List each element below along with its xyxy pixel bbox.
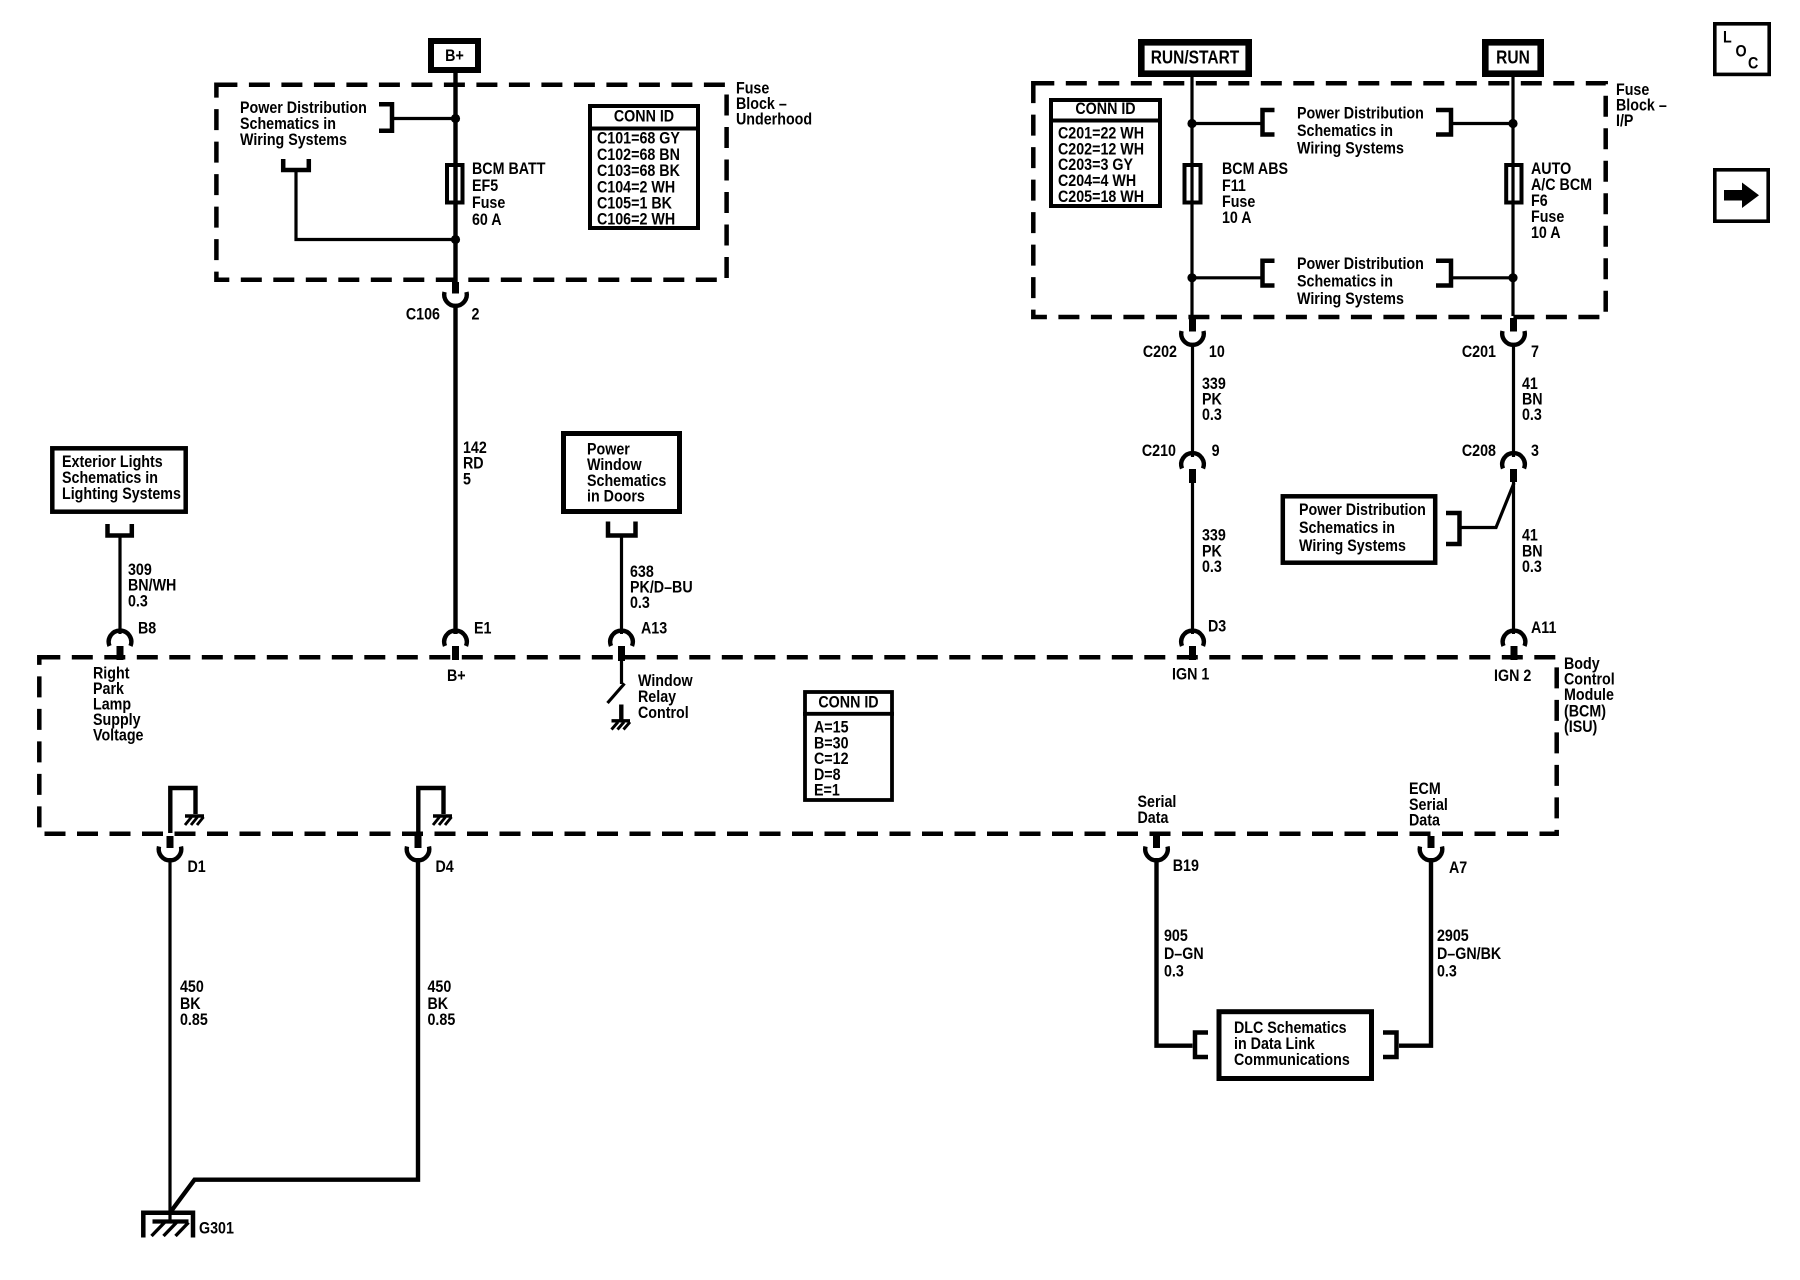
- junction dot: [451, 114, 460, 123]
- wire RUN/START to upper-left bracket: [1192, 122, 1261, 125]
- svg-text:CONN ID: CONN ID: [1075, 100, 1135, 118]
- junction dot: [1187, 119, 1196, 128]
- wire upper-right bracket to RUN wire: [1453, 122, 1513, 125]
- svg-text:E=1: E=1: [814, 782, 840, 800]
- svg-text:Voltage: Voltage: [93, 726, 144, 744]
- connector A7: [1420, 836, 1468, 877]
- chassis ground (right hook): [433, 816, 452, 825]
- connector B8 at BCM: [109, 619, 157, 660]
- DLC right bracket: [1383, 1033, 1397, 1058]
- svg-text:0.85: 0.85: [180, 1011, 208, 1029]
- label Fuse Block - I/P: [1616, 81, 1667, 130]
- svg-text:905: 905: [1164, 927, 1188, 945]
- svg-text:in Doors: in Doors: [587, 488, 645, 506]
- label 142 RD 5: [463, 439, 487, 489]
- CONN ID table (BCM): [803, 692, 894, 800]
- svg-text:7: 7: [1531, 343, 1539, 361]
- connector B19: [1145, 836, 1199, 875]
- svg-text:C208: C208: [1462, 442, 1496, 460]
- box Exterior Lights Schematics in Lighting Systems: [52, 448, 185, 511]
- svg-text:2905: 2905: [1437, 927, 1469, 945]
- fuse EF5: [447, 165, 463, 203]
- svg-text:Data: Data: [1409, 811, 1440, 829]
- svg-text:Power Distribution: Power Distribution: [1297, 255, 1424, 273]
- svg-text:2: 2: [472, 305, 480, 323]
- svg-text:A13: A13: [641, 619, 667, 637]
- off-page bracket to power distribution (upper): [379, 104, 392, 131]
- svg-text:CONN ID: CONN ID: [614, 107, 674, 125]
- svg-text:10 A: 10 A: [1531, 224, 1561, 242]
- ground G301: [143, 1213, 234, 1238]
- svg-text:E1: E1: [474, 619, 492, 637]
- pin label Right Park Lamp Supply Voltage: [93, 664, 144, 744]
- connector A13 at BCM: [610, 619, 667, 661]
- fuse block I/P dashed box: [1033, 83, 1605, 317]
- svg-text:10 A: 10 A: [1222, 209, 1252, 227]
- connector D4: [407, 836, 454, 876]
- upper-left bracket (I/P): [1263, 110, 1275, 135]
- svg-text:I/P: I/P: [1616, 112, 1633, 130]
- wire RUN/START feed: [1190, 73, 1193, 316]
- label 339 PK 0.3 (lower): [1202, 526, 1226, 576]
- chassis ground (window relay): [612, 721, 631, 730]
- fuse F11: [1185, 165, 1201, 203]
- wire bracket to 41 BN wire (diagonal tap): [1460, 483, 1514, 528]
- lower-left bracket (I/P): [1263, 261, 1275, 286]
- svg-text:Control: Control: [638, 704, 689, 722]
- label Fuse Block - Underhood: [736, 79, 812, 128]
- svg-text:Wiring Systems: Wiring Systems: [1297, 139, 1404, 157]
- connector A11 at BCM: [1503, 619, 1557, 660]
- off-page cup connector (lower left): [283, 159, 309, 170]
- junction dot: [1508, 119, 1517, 128]
- svg-text:D–GN: D–GN: [1164, 945, 1204, 963]
- svg-text:D–GN/BK: D–GN/BK: [1437, 945, 1502, 963]
- svg-text:3: 3: [1531, 442, 1539, 460]
- wire 41 BN lower: [1512, 482, 1515, 634]
- junction dot: [1508, 273, 1517, 282]
- svg-text:A11: A11: [1531, 619, 1557, 637]
- svg-text:IGN 2: IGN 2: [1494, 667, 1532, 685]
- connector C202: [1143, 318, 1225, 361]
- label 41 BN 0.3 (lower): [1522, 526, 1543, 576]
- svg-text:BCM ABS: BCM ABS: [1222, 160, 1288, 178]
- junction dot: [451, 235, 460, 244]
- svg-text:D4: D4: [436, 858, 454, 876]
- label Window Relay Control: [638, 672, 693, 722]
- CONN ID table (I/P): [1049, 100, 1162, 206]
- svg-text:0.3: 0.3: [1522, 558, 1542, 576]
- fuse F6: [1506, 165, 1521, 203]
- label 309 BN/WH 0.3: [128, 561, 176, 611]
- svg-text:RUN: RUN: [1496, 47, 1530, 68]
- svg-text:B19: B19: [1173, 857, 1199, 875]
- svg-text:Communications: Communications: [1234, 1051, 1350, 1069]
- svg-text:C202: C202: [1143, 343, 1177, 361]
- wire 450 BK left (D1 to G301): [168, 858, 171, 1222]
- cup bracket under exterior lights box: [108, 524, 132, 536]
- cup bracket under power window box: [608, 522, 636, 536]
- svg-text:5: 5: [463, 470, 471, 488]
- svg-text:BCM BATT: BCM BATT: [472, 160, 546, 178]
- wire 142 RD 5: [453, 305, 457, 634]
- label BCM BATT EF5 Fuse 60 A: [472, 160, 546, 229]
- svg-text:0.3: 0.3: [1437, 962, 1457, 980]
- svg-text:Underhood: Underhood: [736, 110, 812, 128]
- BCM dashed box: [39, 657, 1556, 833]
- lower-right bracket (I/P): [1436, 261, 1451, 286]
- label Body Control Module (BCM) (ISU): [1564, 655, 1615, 736]
- junction dot: [1187, 273, 1196, 282]
- svg-text:C106=2 WH: C106=2 WH: [597, 211, 675, 229]
- wire B+ feed vertical: [453, 70, 457, 284]
- wire 339 PK lower: [1191, 483, 1194, 634]
- svg-text:0.3: 0.3: [1522, 406, 1542, 424]
- svg-text:L: L: [1723, 28, 1732, 46]
- svg-text:C106: C106: [406, 305, 440, 323]
- svg-text:EF5: EF5: [472, 177, 498, 195]
- label 339 PK 0.3 (upper): [1202, 375, 1226, 424]
- svg-text:0.3: 0.3: [630, 594, 650, 612]
- ground hook inside BCM (left): [170, 788, 195, 833]
- svg-text:9: 9: [1212, 442, 1220, 460]
- svg-text:450: 450: [428, 978, 452, 996]
- svg-text:Lighting Systems: Lighting Systems: [62, 485, 181, 503]
- svg-text:450: 450: [180, 978, 204, 996]
- svg-text:Schematics in: Schematics in: [1297, 122, 1393, 140]
- svg-text:Wiring Systems: Wiring Systems: [1297, 290, 1404, 308]
- svg-text:D1: D1: [188, 858, 206, 876]
- svg-text:C210: C210: [1142, 442, 1176, 460]
- wire 450 BK right (D4 to G301): [171, 858, 419, 1212]
- svg-text:Wiring Systems: Wiring Systems: [1299, 537, 1406, 555]
- svg-text:C: C: [1748, 54, 1758, 72]
- LOC legend box: [1715, 24, 1769, 75]
- svg-text:G301: G301: [199, 1220, 234, 1238]
- note power distribution schematics (I/P upper): [1297, 104, 1424, 157]
- pin label Serial Data: [1138, 793, 1177, 827]
- chassis ground (left hook): [185, 816, 204, 825]
- svg-text:0.3: 0.3: [1164, 962, 1184, 980]
- wire RUN feed: [1511, 73, 1514, 316]
- label 450 BK 0.85 (left): [180, 978, 208, 1029]
- svg-text:Power Distribution: Power Distribution: [1299, 501, 1426, 519]
- svg-text:0.3: 0.3: [1202, 558, 1222, 576]
- svg-text:CONN ID: CONN ID: [818, 693, 878, 711]
- svg-text:A7: A7: [1449, 859, 1467, 877]
- connector C106: [406, 282, 480, 324]
- label AUTO A/C BCM F6 Fuse 10 A: [1531, 160, 1592, 242]
- box DLC Schematics in Data Link Communications: [1219, 1012, 1372, 1079]
- svg-text:Schematics in: Schematics in: [1299, 519, 1395, 537]
- connector D1: [159, 836, 206, 876]
- note power distribution schematics (I/P lower): [1297, 255, 1424, 308]
- label BCM ABS F11 Fuse 10 A: [1222, 160, 1288, 227]
- power symbol B+ (battery feed): [431, 41, 478, 70]
- svg-text:0.85: 0.85: [428, 1011, 456, 1029]
- svg-text:C205=18 WH: C205=18 WH: [1058, 188, 1144, 206]
- power symbol RUN/START: [1141, 42, 1248, 73]
- svg-text:B+: B+: [445, 47, 464, 65]
- svg-text:0.3: 0.3: [128, 592, 148, 610]
- wire 638 PK/D-BU: [620, 536, 623, 635]
- svg-text:(ISU): (ISU): [1564, 718, 1597, 736]
- wire lower-right bracket to RUN wire: [1453, 276, 1513, 279]
- label 638 PK/D-BU 0.3: [630, 563, 693, 612]
- box Power Window Schematics in Doors: [564, 434, 680, 512]
- svg-text:Data: Data: [1138, 809, 1169, 827]
- svg-text:Power Distribution: Power Distribution: [1297, 104, 1424, 122]
- wire cup to B+ feed: [296, 170, 456, 240]
- svg-text:B8: B8: [138, 619, 156, 637]
- label 2905 D-GN/BK 0.3: [1437, 927, 1502, 981]
- svg-text:60 A: 60 A: [472, 211, 502, 229]
- CONN ID table (underhood): [588, 106, 700, 229]
- svg-text:Schematics in: Schematics in: [1297, 272, 1393, 290]
- svg-text:O: O: [1736, 42, 1747, 60]
- connector C210: [1142, 442, 1220, 483]
- wire 2905 D-GN/BK (A7 to DLC): [1399, 858, 1431, 1046]
- wire 41 BN upper: [1512, 344, 1515, 457]
- arrow legend box: [1715, 170, 1768, 221]
- svg-text:IGN 1: IGN 1: [1172, 665, 1210, 683]
- connector C201: [1462, 318, 1539, 361]
- pin label ECM Serial Data: [1409, 780, 1448, 830]
- svg-text:Fuse: Fuse: [472, 194, 506, 212]
- bracket for power distribution box: [1446, 513, 1460, 544]
- wire 339 PK upper: [1191, 344, 1194, 457]
- ground hook inside BCM (right): [418, 788, 443, 833]
- svg-text:Wiring Systems: Wiring Systems: [240, 131, 347, 149]
- note: power distribution schematics in wiring systems (underhood): [240, 99, 367, 149]
- connector E1 at BCM: [444, 619, 492, 660]
- connector C208: [1462, 442, 1539, 482]
- wire 905 D-GN (B19 to DLC): [1157, 858, 1193, 1046]
- DLC left bracket: [1195, 1033, 1208, 1058]
- window relay control wire and switch: [608, 661, 625, 720]
- wire bracket to B+ feed: [392, 117, 456, 120]
- wire 309 BN/WH: [118, 536, 121, 635]
- svg-text:10: 10: [1209, 343, 1225, 361]
- connector D3 at BCM: [1181, 617, 1226, 660]
- label 905 D-GN 0.3: [1164, 927, 1204, 981]
- svg-text:0.3: 0.3: [1202, 406, 1222, 424]
- svg-text:D3: D3: [1208, 617, 1226, 635]
- fuse block underhood dashed box: [216, 85, 726, 280]
- svg-text:RUN/START: RUN/START: [1151, 47, 1240, 68]
- svg-text:B+: B+: [447, 667, 466, 685]
- label 41 BN 0.3 (upper): [1522, 375, 1543, 424]
- power symbol RUN: [1485, 42, 1540, 73]
- wire RUN/START to lower-left bracket: [1192, 276, 1261, 279]
- label 450 BK 0.85 (right): [428, 978, 456, 1029]
- box power distribution schematics (near C208): [1283, 496, 1435, 562]
- upper-right bracket (I/P): [1436, 110, 1451, 135]
- svg-text:C201: C201: [1462, 343, 1496, 361]
